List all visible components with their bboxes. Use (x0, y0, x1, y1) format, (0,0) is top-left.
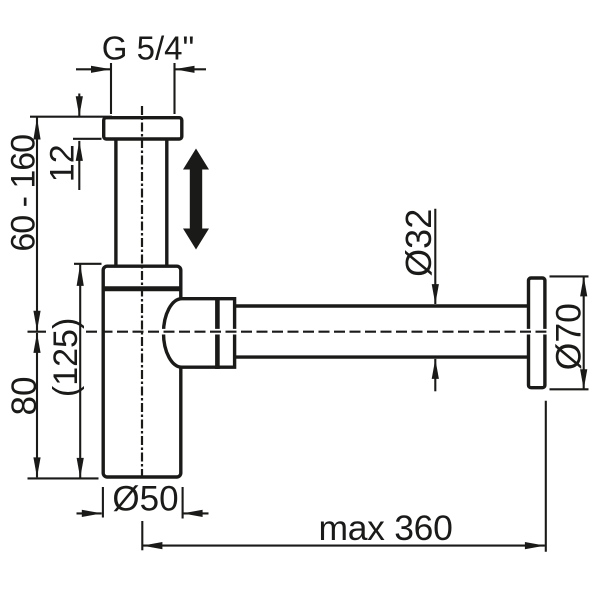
svg-text:80: 80 (5, 377, 44, 416)
svg-text:Ø32: Ø32 (398, 209, 439, 277)
svg-text:G 5/4": G 5/4" (102, 30, 194, 67)
svg-text:60 - 160: 60 - 160 (4, 135, 42, 252)
svg-text:12: 12 (44, 144, 82, 182)
svg-text:max 360: max 360 (318, 508, 452, 548)
svg-text:Ø50: Ø50 (112, 480, 178, 519)
svg-text:Ø70: Ø70 (549, 303, 589, 370)
svg-text:(125): (125) (47, 318, 85, 397)
